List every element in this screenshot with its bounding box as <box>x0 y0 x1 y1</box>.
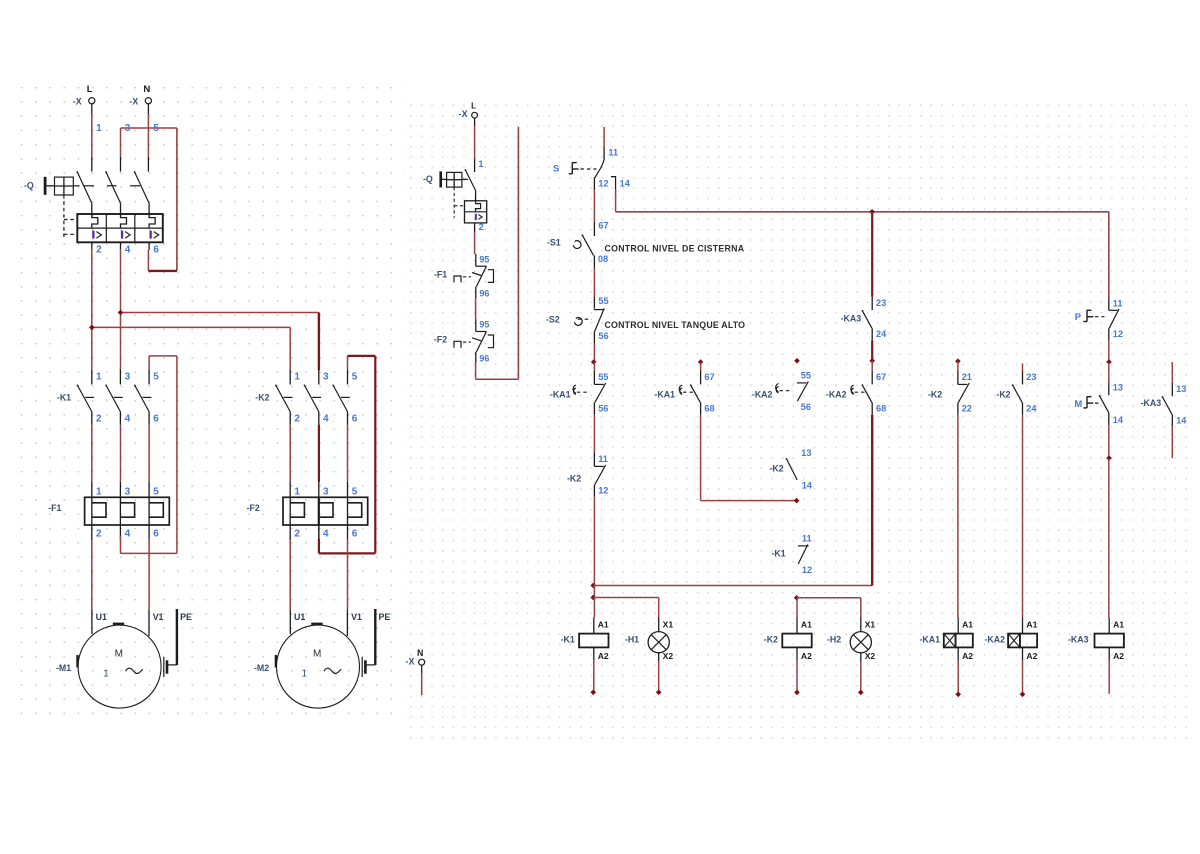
svg-text:4: 4 <box>125 529 131 540</box>
svg-text:-X: -X <box>73 96 82 106</box>
svg-text:11: 11 <box>1113 298 1123 308</box>
svg-text:56: 56 <box>598 404 608 414</box>
svg-text:-K2: -K2 <box>764 634 778 644</box>
svg-text:X2: X2 <box>663 651 674 661</box>
svg-text:2: 2 <box>96 413 102 424</box>
svg-text:2: 2 <box>294 413 300 424</box>
svg-text:6: 6 <box>352 529 358 540</box>
svg-text:68: 68 <box>876 404 886 414</box>
svg-text:3: 3 <box>125 486 131 497</box>
svg-text:5: 5 <box>352 486 358 497</box>
svg-text:14: 14 <box>802 480 813 490</box>
svg-text:5: 5 <box>153 372 159 383</box>
svg-text:14: 14 <box>620 178 631 188</box>
svg-text:13: 13 <box>1176 384 1186 394</box>
svg-text:X2: X2 <box>865 651 876 661</box>
svg-text:M: M <box>1074 399 1082 410</box>
svg-text:95: 95 <box>479 320 489 330</box>
svg-text:-K1: -K1 <box>772 549 786 559</box>
svg-text:-KA2: -KA2 <box>826 389 847 399</box>
svg-text:-K2: -K2 <box>928 389 942 399</box>
svg-text:-KA3: -KA3 <box>841 313 862 323</box>
svg-text:2: 2 <box>479 222 484 232</box>
svg-text:-K1: -K1 <box>57 392 71 402</box>
svg-text:96: 96 <box>479 288 489 298</box>
svg-text:U1: U1 <box>294 612 305 622</box>
svg-text:-KA3: -KA3 <box>1068 634 1089 644</box>
svg-text:L: L <box>471 102 476 111</box>
svg-text:-X: -X <box>129 96 138 106</box>
svg-text:14: 14 <box>1113 415 1124 425</box>
svg-text:5: 5 <box>153 123 159 134</box>
svg-text:11: 11 <box>608 147 618 157</box>
svg-text:67: 67 <box>598 221 608 231</box>
svg-text:A1: A1 <box>962 619 973 629</box>
svg-text:1: 1 <box>478 159 483 169</box>
svg-text:A2: A2 <box>598 651 609 661</box>
svg-text:-K2: -K2 <box>996 389 1010 399</box>
svg-text:67: 67 <box>876 372 886 382</box>
svg-text:23: 23 <box>1026 372 1036 382</box>
svg-text:-M1: -M1 <box>56 663 71 673</box>
svg-text:-KA1: -KA1 <box>655 389 676 399</box>
svg-text:21: 21 <box>962 372 972 382</box>
svg-text:-F1: -F1 <box>48 503 61 513</box>
svg-text:A2: A2 <box>801 651 812 661</box>
svg-text:6: 6 <box>153 245 159 256</box>
svg-text:A1: A1 <box>801 619 812 629</box>
svg-text:-KA3: -KA3 <box>1141 398 1162 408</box>
svg-text:67: 67 <box>704 372 714 382</box>
svg-text:-X: -X <box>459 109 468 119</box>
svg-text:U1: U1 <box>96 612 107 622</box>
svg-text:CONTROL NIVEL DE CISTERNA: CONTROL NIVEL DE CISTERNA <box>605 243 745 253</box>
svg-text:-K2: -K2 <box>770 463 784 473</box>
svg-text:1: 1 <box>294 372 300 383</box>
svg-text:96: 96 <box>479 354 489 364</box>
svg-text:1: 1 <box>103 669 109 680</box>
svg-text:22: 22 <box>962 404 972 414</box>
svg-text:24: 24 <box>1026 404 1037 414</box>
svg-text:3: 3 <box>125 372 131 383</box>
svg-text:12: 12 <box>802 565 812 575</box>
svg-text:-KA1: -KA1 <box>550 389 571 399</box>
svg-text:1: 1 <box>294 486 300 497</box>
svg-text:12: 12 <box>598 178 608 188</box>
svg-text:X1: X1 <box>865 619 876 629</box>
svg-text:56: 56 <box>801 402 811 412</box>
svg-text:A2: A2 <box>962 651 973 661</box>
svg-text:3: 3 <box>125 123 131 134</box>
svg-text:N: N <box>417 648 423 658</box>
svg-text:2: 2 <box>96 529 102 540</box>
svg-text:55: 55 <box>598 372 608 382</box>
svg-text:1: 1 <box>302 669 308 680</box>
svg-text:12: 12 <box>1113 329 1123 339</box>
svg-text:4: 4 <box>125 413 131 424</box>
svg-text:A1: A1 <box>598 619 609 629</box>
svg-text:1: 1 <box>96 486 102 497</box>
svg-text:-S2: -S2 <box>546 315 560 325</box>
svg-text:-K2: -K2 <box>255 392 269 402</box>
svg-text:23: 23 <box>876 298 886 308</box>
svg-text:56: 56 <box>598 331 608 341</box>
svg-text:-X: -X <box>406 657 415 667</box>
svg-text:11: 11 <box>802 534 812 544</box>
svg-text:11: 11 <box>598 454 608 464</box>
svg-text:5: 5 <box>153 486 159 497</box>
svg-text:6: 6 <box>352 413 358 424</box>
svg-text:-K2: -K2 <box>567 473 581 483</box>
svg-text:4: 4 <box>323 529 329 540</box>
svg-text:-KA2: -KA2 <box>985 634 1006 644</box>
svg-text:24: 24 <box>876 329 887 339</box>
svg-text:4: 4 <box>125 245 131 256</box>
svg-text:M: M <box>115 649 123 660</box>
svg-text:14: 14 <box>1176 415 1187 425</box>
svg-text:A1: A1 <box>1026 619 1037 629</box>
svg-text:13: 13 <box>1113 382 1123 392</box>
svg-text:1: 1 <box>96 123 102 134</box>
svg-text:4: 4 <box>323 413 329 424</box>
svg-text:13: 13 <box>801 448 811 458</box>
svg-text:L: L <box>87 84 93 95</box>
svg-text:V1: V1 <box>351 612 362 622</box>
svg-text:3: 3 <box>323 486 329 497</box>
svg-text:V1: V1 <box>153 612 164 622</box>
svg-text:1: 1 <box>96 372 102 383</box>
svg-text:PE: PE <box>379 612 391 622</box>
svg-text:-K1: -K1 <box>561 634 575 644</box>
svg-text:PE: PE <box>180 612 192 622</box>
svg-text:X1: X1 <box>663 619 674 629</box>
svg-text:-Q: -Q <box>24 181 34 191</box>
svg-text:-H1: -H1 <box>625 634 639 644</box>
svg-text:-KA1: -KA1 <box>920 634 941 644</box>
svg-text:A1: A1 <box>1113 619 1124 629</box>
svg-text:-M2: -M2 <box>254 663 269 673</box>
svg-text:P: P <box>1075 312 1082 323</box>
svg-text:-Q: -Q <box>423 174 433 184</box>
svg-text:-KA2: -KA2 <box>752 389 773 399</box>
svg-text:6: 6 <box>153 529 159 540</box>
svg-text:-F2: -F2 <box>247 503 260 513</box>
svg-text:2: 2 <box>96 245 102 256</box>
svg-text:A2: A2 <box>1026 651 1037 661</box>
svg-text:5: 5 <box>352 372 358 383</box>
svg-text:12: 12 <box>598 486 608 496</box>
svg-text:08: 08 <box>598 254 608 264</box>
svg-text:55: 55 <box>801 371 811 381</box>
svg-text:-H2: -H2 <box>827 634 841 644</box>
svg-text:M: M <box>313 649 321 660</box>
svg-text:6: 6 <box>153 413 159 424</box>
svg-text:-F2: -F2 <box>434 335 447 345</box>
svg-text:2: 2 <box>294 529 300 540</box>
svg-text:-F1: -F1 <box>434 269 447 279</box>
svg-text:-S1: -S1 <box>547 238 561 248</box>
svg-text:S: S <box>553 163 559 174</box>
svg-text:N: N <box>143 84 150 95</box>
svg-text:68: 68 <box>704 404 714 414</box>
svg-text:CONTROL NIVEL TANQUE ALTO: CONTROL NIVEL TANQUE ALTO <box>605 320 746 330</box>
svg-text:55: 55 <box>598 296 608 306</box>
svg-text:A2: A2 <box>1113 651 1124 661</box>
svg-text:95: 95 <box>479 254 489 264</box>
svg-text:3: 3 <box>323 372 329 383</box>
